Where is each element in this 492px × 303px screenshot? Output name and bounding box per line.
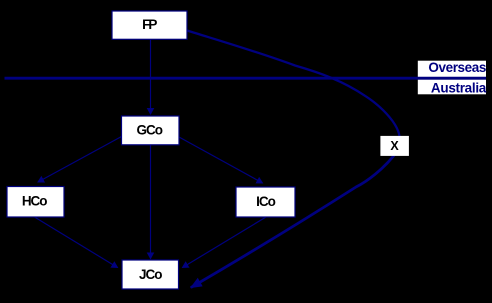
svg-text:FP: FP bbox=[142, 17, 157, 32]
box GCo bbox=[122, 116, 180, 145]
svg-text:JCo: JCo bbox=[139, 267, 162, 282]
arrow FP to GCo bbox=[150, 40, 152, 115]
label Overseas bbox=[428, 60, 486, 75]
box JCo bbox=[122, 260, 179, 289]
arrow HCo to JCo bbox=[35, 217, 118, 268]
svg-text:HCo: HCo bbox=[22, 194, 47, 209]
strip Overseas label background bbox=[418, 61, 486, 78]
wire: horizontal Overseas/Australia border line bbox=[5, 77, 487, 80]
wire: curve FP to X bbox=[187, 31, 400, 137]
label Australia bbox=[431, 81, 487, 96]
arrow GCo to HCo bbox=[38, 137, 122, 183]
box FP bbox=[112, 11, 187, 39]
svg-text:X: X bbox=[390, 139, 399, 153]
box HCo bbox=[7, 187, 64, 218]
box X bbox=[380, 136, 409, 156]
svg-text:GCo: GCo bbox=[137, 122, 163, 137]
arrow GCo to ICo bbox=[179, 137, 263, 183]
svg-text:Overseas: Overseas bbox=[428, 60, 486, 75]
wire: thick curve X to JCo with arrowhead bbox=[191, 156, 394, 288]
svg-text:Australia: Australia bbox=[431, 81, 487, 96]
strip Australia label background bbox=[418, 80, 486, 95]
arrow GCo to JCo bbox=[150, 145, 152, 259]
arrow ICo to JCo bbox=[183, 217, 267, 268]
box ICo bbox=[236, 187, 295, 217]
svg-text:ICo: ICo bbox=[256, 194, 276, 209]
